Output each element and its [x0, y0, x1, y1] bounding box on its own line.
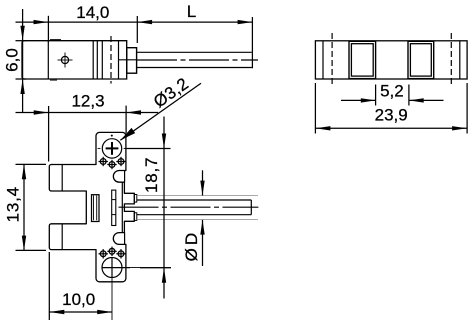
arrow 18.7 down — [162, 134, 166, 149]
front view outline — [49, 132, 134, 281]
dimension line 12.3 — [16, 112, 159, 114]
window 2 — [408, 41, 434, 78]
extension 10.0 left — [48, 252, 50, 320]
extension tick 6.0 top — [16, 40, 27, 42]
extension 18.7 bottom — [140, 267, 171, 269]
side view front section line — [47, 41, 49, 79]
side view inner line b — [96, 41, 98, 79]
svg-text:ØD: ØD — [182, 230, 201, 262]
index dot — [111, 135, 113, 137]
dimension 5.2 — [341, 85, 444, 106]
svg-text:10,0: 10,0 — [62, 290, 95, 309]
svg-text:18,7: 18,7 — [142, 157, 161, 193]
arrow D down — [200, 181, 204, 196]
arrow 13.4 up — [22, 164, 26, 179]
svg-text:L: L — [187, 2, 196, 21]
extension line x48 mid — [48, 106, 50, 162]
extension 18.7 top — [126, 148, 170, 150]
arrow 23.9 right — [452, 126, 467, 130]
window 1 — [349, 41, 376, 78]
arrow D up — [200, 220, 204, 235]
arrow 13.4 down — [22, 236, 26, 251]
svg-text:14,0: 14,0 — [76, 3, 109, 22]
dimension vertical line left — [22, 9, 24, 113]
arrow 6.0 up — [20, 79, 24, 94]
arrow 6.0 down — [20, 26, 24, 41]
side view inner line c — [101, 41, 103, 79]
center strip — [112, 190, 116, 225]
dimension 23.9 — [315, 83, 467, 134]
front cable centerline — [119, 206, 259, 208]
side view bottom ridge — [50, 79, 57, 81]
side view cable outline — [137, 52, 252, 67]
screw top right — [116, 157, 125, 166]
arrow 18.7 up — [162, 268, 166, 283]
side view cable gland — [127, 48, 137, 73]
top view inner left line — [322, 41, 324, 79]
svg-text:6,0: 6,0 — [3, 48, 22, 72]
screw top middle — [107, 160, 116, 169]
arrow 10.0 right — [97, 310, 112, 314]
extension line x48 top — [47, 16, 49, 42]
dimension 13.4 line — [23, 164, 25, 250]
arrow 10.0 left — [50, 310, 65, 314]
top view inner right line — [459, 41, 461, 79]
screw bottom left — [99, 249, 108, 258]
arrow 23.9 left — [316, 126, 331, 130]
svg-text:23,9: 23,9 — [375, 105, 408, 124]
extension tick 6.0 bottom — [16, 78, 27, 80]
arrow 14.0/L shared — [137, 20, 152, 24]
extension 13.4 top — [16, 163, 47, 165]
slot top closing line — [124, 171, 126, 183]
side view inner line d — [118, 41, 120, 79]
arrow 14.0 left — [34, 20, 49, 24]
arrow L right — [238, 20, 253, 24]
arrow 5.2 left — [361, 98, 376, 102]
lens block — [92, 195, 100, 222]
svg-text:Ø3,2: Ø3,2 — [150, 74, 192, 112]
svg-text:5,2: 5,2 — [380, 82, 404, 101]
cable gland cap bottom — [134, 213, 137, 221]
side view inner line a — [92, 41, 94, 79]
side view dashed line — [110, 36, 112, 84]
arrow 12.3 right — [126, 110, 141, 114]
top view dashed right — [450, 33, 452, 86]
dimension line top — [16, 21, 253, 23]
bottom mounting hole — [102, 258, 171, 321]
side view top ridge — [50, 39, 61, 41]
screw bottom middle — [107, 247, 116, 256]
dimension 10.0 line — [49, 311, 112, 313]
side view body outline — [22, 41, 127, 79]
leader arrowhead — [120, 128, 135, 140]
dimension 18.7 line — [163, 117, 165, 299]
prong tip inner line bottom — [61, 224, 63, 250]
extension 13.4 bottom — [16, 249, 47, 251]
svg-text:13,4: 13,4 — [3, 186, 22, 222]
arrow 5.2 right — [409, 98, 424, 102]
top mounting hole — [98, 139, 127, 158]
prong tip inner line top — [61, 165, 63, 192]
body inner edge line — [121, 182, 123, 232]
side view cable centerline — [137, 59, 258, 61]
extension line x252 — [251, 17, 253, 68]
extension line x126 — [125, 106, 127, 134]
arrow 12.3 left — [34, 110, 49, 114]
front cable max diameter lines — [137, 196, 258, 220]
dimension D line — [202, 170, 204, 266]
side view mid horizontal — [119, 59, 137, 61]
extension line x137 — [136, 16, 138, 43]
cable gland cap top — [134, 195, 137, 203]
top view dashed left — [331, 33, 333, 86]
leader line diameter 3.2 — [120, 83, 201, 140]
front cable outline — [137, 200, 252, 215]
top view outline — [315, 41, 467, 79]
slot bottom closing line — [124, 233, 126, 245]
svg-text:12,3: 12,3 — [71, 91, 104, 110]
screw bottom right — [116, 249, 125, 258]
screw top left — [99, 157, 108, 166]
side view optical axis marker — [58, 53, 73, 68]
